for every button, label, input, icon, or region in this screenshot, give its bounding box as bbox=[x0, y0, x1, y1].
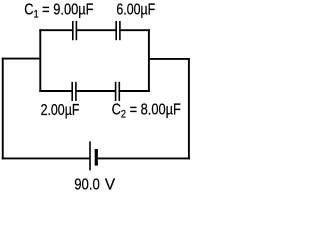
capacitor 6.00uF right plate bbox=[119, 21, 121, 40]
wire: inner rect bottom edge, middle segment bbox=[76, 90, 116, 92]
capacitor 6.00uF left plate bbox=[115, 21, 117, 40]
wire: bottom right from battery bbox=[98, 157, 190, 159]
wire: right connector to rect bbox=[149, 58, 190, 60]
wire: inner rect top edge, middle segment bbox=[76, 29, 116, 31]
capacitor 2.00uF left plate bbox=[71, 82, 73, 101]
label 90.0 V bbox=[74, 177, 116, 194]
label 6.00uF bbox=[116, 0, 155, 18]
capacitor C2 left plate bbox=[115, 82, 117, 101]
wire: inner rect bottom edge, left segment bbox=[39, 90, 72, 92]
wire: right outer vertical bbox=[188, 58, 190, 159]
battery long plate (positive) bbox=[89, 141, 91, 170]
svg-text:V: V bbox=[105, 177, 116, 194]
wire: bottom left to battery bbox=[2, 157, 90, 159]
capacitor C1 left plate bbox=[72, 21, 74, 40]
svg-text:90.0: 90.0 bbox=[74, 177, 100, 194]
label C1 = 9.00uF bbox=[24, 0, 94, 21]
wire: inner rect left edge bbox=[39, 29, 41, 92]
wire: left connector to rect bbox=[2, 58, 41, 60]
wire: inner rect bottom edge, right segment bbox=[119, 90, 150, 92]
label 2.00uF bbox=[41, 101, 80, 119]
label C2 = 8.00uF bbox=[112, 100, 182, 121]
wire: inner rect right edge bbox=[148, 29, 150, 92]
wire: inner rect top edge, left segment bbox=[39, 29, 73, 31]
capacitor C1 right plate bbox=[75, 21, 77, 40]
capacitor 2.00uF right plate bbox=[75, 82, 77, 101]
svg-text:2.00µF: 2.00µF bbox=[41, 101, 80, 119]
wire: left outer vertical bbox=[2, 58, 4, 160]
capacitor C2 right plate bbox=[118, 82, 120, 101]
battery short thick plate (negative) bbox=[95, 149, 98, 166]
svg-text:6.00µF: 6.00µF bbox=[116, 0, 155, 18]
wire: inner rect top edge, right segment bbox=[120, 29, 150, 31]
